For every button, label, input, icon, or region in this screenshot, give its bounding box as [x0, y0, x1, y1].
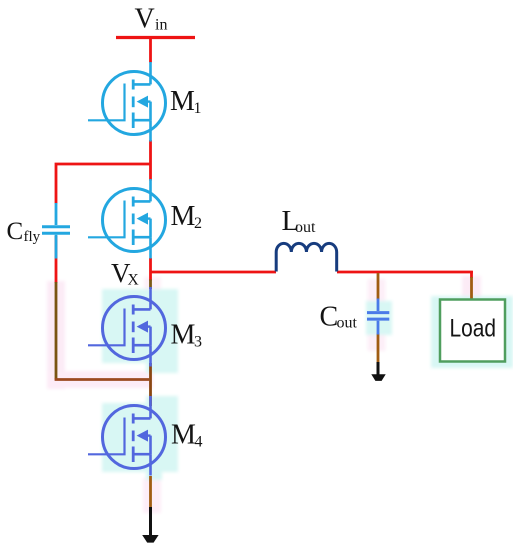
wire Cout drop (brown) [377, 273, 380, 300]
svg-text:M: M [170, 86, 195, 117]
wire Lout to Cout junction to Load corner [337, 271, 473, 274]
wire M1/M2 junction to Cfly top [56, 164, 151, 204]
wire M2 source to Vx node [149, 258, 152, 281]
svg-text:C: C [7, 218, 24, 245]
wire Load drop (brown) [470, 277, 473, 299]
capacitor Cout [367, 299, 389, 335]
svg-text:C: C [320, 302, 339, 333]
wire Vx node down to M3 drain (brown) [149, 280, 152, 290]
svg-text:V: V [135, 3, 155, 34]
svg-text:M: M [171, 420, 196, 451]
wire M1 source to M2 drain [149, 140, 152, 181]
transistor M3 [88, 287, 166, 367]
svg-text:fly: fly [24, 229, 41, 245]
wire Cfly return (brown) to M3/M4 junction [55, 282, 58, 380]
svg-text:2: 2 [194, 215, 202, 232]
highlight glows (pink/cyan marker bands) [47, 276, 513, 513]
wire M3 source to M4 drain (brown) [149, 363, 152, 406]
svg-text:3: 3 [194, 334, 202, 351]
wire Load drop (red elbow) [470, 271, 473, 278]
transistor M2 [88, 179, 166, 259]
Load box [440, 300, 505, 362]
wire Vx node to Lout [151, 271, 277, 274]
svg-text:M: M [171, 320, 196, 351]
transistor M4 [88, 396, 166, 476]
wire M4 source to ground (brown) [149, 476, 152, 508]
svg-text:M: M [171, 201, 196, 232]
svg-text:out: out [337, 315, 358, 332]
wire Cout to ground (brown) [377, 334, 380, 363]
ground (Cout) [371, 362, 385, 381]
svg-text:Load: Load [450, 314, 497, 342]
svg-text:out: out [295, 219, 316, 236]
wire Cfly return horizontal (brown) [55, 378, 150, 381]
svg-text:4: 4 [195, 434, 203, 451]
svg-text:1: 1 [194, 100, 202, 117]
svg-text:X: X [128, 272, 139, 289]
wire Cfly bottom (red part) [55, 236, 58, 283]
capacitor Cfly [42, 203, 70, 259]
transistor M1 [88, 62, 166, 142]
inductor Lout [276, 243, 336, 271]
svg-text:in: in [155, 17, 167, 34]
ground (main, below M4) [142, 507, 158, 543]
wire Vin to M1 drain [149, 39, 152, 63]
node Vin input bar [116, 36, 195, 39]
